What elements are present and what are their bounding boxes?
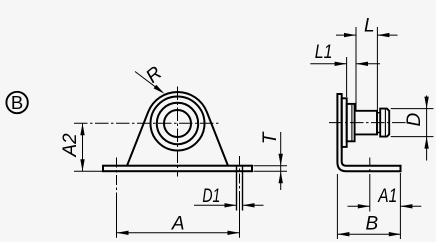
extension line leg hole (for A1)	[369, 178, 371, 212]
front view: boss circle	[151, 97, 205, 151]
svg-text:D: D	[404, 113, 425, 127]
centerline right mounting hole	[239, 156, 241, 198]
view label B (circled)	[6, 92, 27, 113]
extension line left hole (for A)	[116, 197, 118, 238]
right hole left edge line	[236, 166, 238, 211]
front view: base plate outline	[103, 166, 252, 172]
side view: collar	[347, 104, 355, 141]
dimension A	[117, 213, 240, 235]
side view: collar chamfer line	[351, 105, 353, 141]
radius leader R	[135, 63, 166, 94]
svg-text:B: B	[11, 92, 23, 113]
side view: washer disc	[342, 98, 347, 147]
svg-text:R: R	[142, 63, 166, 88]
svg-text:L1: L1	[315, 42, 333, 63]
front view: bore circle	[164, 110, 191, 137]
side view: stud head	[380, 109, 389, 137]
svg-text:L: L	[364, 15, 375, 36]
dimension A1	[348, 186, 422, 209]
side view: groove	[377, 111, 380, 135]
svg-text:A1: A1	[377, 186, 397, 207]
centerline vertical (front)	[177, 87, 179, 177]
centerline horizontal (front hole axis)	[74, 122, 220, 124]
extension line leg right end (for A1 and B)	[399, 173, 401, 239]
right hole right edge line	[242, 166, 244, 211]
extension line leg back face (for B)	[336, 174, 338, 239]
centerline leg hole (side)	[369, 158, 371, 179]
dimension L1	[310, 42, 380, 97]
svg-text:A: A	[171, 213, 185, 234]
dimension A2	[60, 123, 103, 171]
side view: stud cylinder	[355, 111, 377, 135]
side view: head chamfer line	[384, 109, 386, 137]
dimension L	[336, 15, 398, 112]
svg-text:T: T	[260, 131, 281, 144]
centerline left mounting hole	[116, 158, 118, 198]
dimension T	[254, 131, 288, 190]
dimension D1	[194, 186, 264, 207]
side view: L-angle outline	[337, 94, 400, 171]
svg-text:B: B	[365, 214, 378, 235]
front view: counterbore circle	[157, 103, 198, 144]
dimension D	[391, 96, 434, 161]
front view: triangular body with round top	[127, 92, 228, 166]
dimension B	[337, 214, 400, 237]
svg-text:A2: A2	[60, 133, 81, 158]
svg-text:D1: D1	[202, 186, 220, 207]
extension line right hole (for A)	[239, 198, 241, 238]
centerline stud axis (side)	[329, 122, 411, 124]
